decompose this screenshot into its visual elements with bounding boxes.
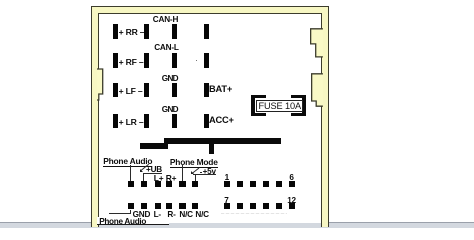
pin sq R7 bbox=[224, 203, 230, 209]
label L+ bbox=[154, 174, 164, 182]
pin row4 col2 (+LR right) bbox=[144, 114, 149, 129]
label N/C 1 bbox=[179, 211, 193, 219]
fuse F1 right bracket bottom stub bbox=[291, 113, 306, 117]
fuse F1 left bracket vertical bbox=[251, 95, 255, 117]
pin row1 col2 (+RR right) bbox=[144, 24, 149, 39]
pin sq L3 bbox=[155, 181, 161, 187]
fuse F1 left bracket bottom stub bbox=[251, 113, 266, 117]
pin sq R6 bbox=[289, 181, 295, 187]
wire lead pin5 top group bbox=[182, 165, 183, 181]
+5v arrowhead bbox=[191, 171, 194, 174]
wire lead bottom horizontal to Phone Audio bbox=[109, 213, 131, 214]
label 7 bbox=[224, 197, 228, 205]
pin row1 col4 bbox=[204, 24, 209, 39]
pin row3 col2 (+LF right) bbox=[144, 83, 149, 98]
pin sq L5 bbox=[179, 181, 185, 187]
switched +UB arrow diagonal bbox=[140, 164, 148, 171]
pin sq L4 bbox=[166, 181, 172, 187]
label GND row4 bbox=[162, 106, 178, 114]
label R- bbox=[167, 211, 175, 219]
pin row4 col4 (ACC+) bbox=[204, 114, 209, 129]
pin row4 col1 (+LR left) bbox=[113, 114, 118, 129]
label GND row3 bbox=[162, 75, 178, 83]
connector housing inner rectangle (white area) bbox=[98, 13, 322, 223]
wire lead pin6 top group bbox=[195, 175, 196, 182]
pin sq L11 bbox=[179, 203, 185, 209]
pin sq R2 bbox=[237, 181, 243, 187]
wire lead pin1 top group bbox=[130, 165, 131, 182]
pin sq R5 bbox=[276, 181, 282, 187]
pin row3 col1 (+LF left) bbox=[113, 83, 118, 98]
label Phone Audio (bottom) bbox=[97, 217, 170, 225]
connector housing outer rectangle (yellow margin) bbox=[91, 6, 329, 224]
label R+ bbox=[166, 174, 177, 182]
wire lead pin2 top group bbox=[143, 174, 144, 182]
housing divider stub bbox=[209, 144, 214, 154]
label L- bbox=[154, 211, 161, 219]
+5v arrow diagonal bbox=[191, 167, 199, 173]
+5v dot bbox=[200, 172, 202, 174]
label +5v bbox=[203, 168, 216, 176]
pin row3 col4 (BAT+) bbox=[204, 83, 209, 98]
label +LR bbox=[119, 118, 144, 127]
label 6 bbox=[289, 174, 293, 182]
wire lead bottom pin1 vertical bbox=[130, 210, 131, 214]
housing divider lower-left bar bbox=[140, 143, 168, 149]
pin row2 col2 (+RF right) bbox=[144, 53, 149, 68]
pin sq R11 bbox=[276, 203, 282, 209]
pin sq R9 bbox=[250, 203, 256, 209]
right keying bump A bbox=[310, 28, 323, 59]
label +RR bbox=[119, 28, 145, 37]
pin row2 col1 (+RF left) bbox=[113, 53, 118, 68]
label Phone Audio (top) bbox=[103, 157, 152, 167]
label 12 bbox=[287, 197, 296, 205]
label CAN-L bbox=[154, 44, 178, 52]
switched +UB arrowhead bbox=[140, 169, 143, 172]
housing divider upper bar bbox=[164, 138, 281, 145]
label N/C 2 bbox=[195, 211, 209, 219]
pin sq L12 bbox=[192, 203, 198, 209]
label 1 bbox=[225, 174, 229, 182]
stray dot row2 bbox=[196, 60, 198, 62]
label BAT+ bbox=[209, 85, 232, 94]
pin sq L1 bbox=[128, 181, 134, 187]
pin sq L6 bbox=[192, 181, 198, 187]
pin sq R10 bbox=[263, 203, 269, 209]
right keying bump B bbox=[311, 73, 323, 108]
label +UB bbox=[146, 166, 162, 174]
right border stub through strip bbox=[321, 222, 329, 227]
fuse F1 value box FUSE 10A bbox=[256, 100, 303, 112]
pin row2 col4 bbox=[204, 53, 209, 68]
+UB bus horizontal line bbox=[143, 173, 163, 174]
pin sq L2 bbox=[141, 181, 147, 187]
label Phone Mode bbox=[170, 158, 218, 168]
pin sq R8 bbox=[237, 203, 243, 209]
bottom window-edge strip bbox=[0, 222, 474, 228]
pin sq L8 bbox=[141, 203, 147, 209]
fuse F1 right bracket top stub bbox=[291, 95, 306, 99]
label +RF bbox=[119, 58, 144, 67]
faint artifact dashes bbox=[221, 213, 287, 215]
label +LF bbox=[119, 87, 143, 96]
pin sq L7 bbox=[128, 203, 134, 209]
pin row1 col1 (+RR left) bbox=[113, 24, 118, 39]
left border stub through strip bbox=[91, 222, 99, 227]
pin sq R3 bbox=[250, 181, 256, 187]
+5v underline bbox=[193, 174, 216, 175]
left keying bump bbox=[97, 68, 104, 102]
pin sq R4 bbox=[263, 181, 269, 187]
label GND (bottom) bbox=[133, 211, 151, 219]
pin sq L9 bbox=[155, 203, 161, 209]
label CAN-H bbox=[153, 16, 178, 24]
fuse F1 right bracket vertical bbox=[302, 95, 306, 117]
pin row2 col3 (CAN-L) bbox=[172, 53, 177, 68]
fuse F1 left bracket top stub bbox=[251, 95, 266, 99]
pin sq R12 bbox=[289, 203, 295, 209]
label ACC+ bbox=[209, 116, 234, 125]
pin row3 col3 (GND) bbox=[172, 83, 177, 98]
pin sq R1 bbox=[224, 181, 230, 187]
pin row4 col3 (GND) bbox=[172, 114, 177, 129]
pin sq L10 bbox=[166, 203, 172, 209]
pin row1 col3 (CAN-H) bbox=[172, 24, 177, 39]
